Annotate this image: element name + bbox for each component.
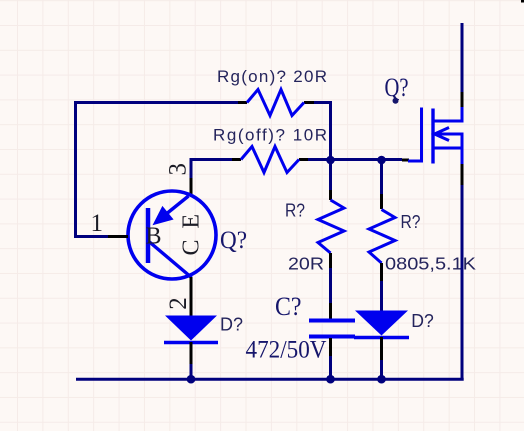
wire: pin3 vertical from transistor	[190, 158, 193, 178]
svg-text:B: B	[146, 224, 162, 250]
svg-text:20R: 20R	[288, 254, 324, 274]
svg-text:Rg(off)? 10R: Rg(off)? 10R	[213, 126, 327, 145]
wire: top horizontal to Rg(on)	[74, 101, 238, 104]
svg-text:D?: D?	[411, 311, 434, 331]
MOSFET right bar source/body	[461, 133, 464, 165]
MOSFET drain riser	[461, 107, 464, 123]
node junction rail (191,378)	[187, 375, 196, 384]
MOSFET channel bar	[431, 109, 434, 164]
svg-text:C: C	[179, 239, 205, 255]
transistor collector diagonal	[150, 242, 192, 278]
transistor emitter arrowhead	[153, 206, 174, 225]
node junction (330,160)	[326, 156, 335, 165]
resistor R3 zigzag vertical	[369, 210, 395, 264]
transistor Q1 circle	[128, 191, 216, 279]
MOSFET drain stub	[433, 120, 462, 123]
pin 1 stub black	[108, 235, 128, 238]
Q tail dot	[393, 98, 399, 104]
resistor Rg(on) R1 pins	[238, 101, 247, 104]
wire: base horizontal	[74, 235, 108, 238]
pin 3 stub black	[190, 178, 193, 196]
svg-text:C?: C?	[275, 292, 302, 321]
node junction (381,160)	[377, 156, 386, 165]
resistor Rg(off) pins	[232, 158, 241, 161]
wire: main rail y160 to MOSFET gate	[331, 158, 403, 161]
capacitor C1 bottom lead	[329, 338, 332, 356]
diode D2 triangle	[355, 311, 408, 336]
resistor R3 (0805,5.1K) top lead	[380, 160, 383, 194]
pin 2 stub black (collector down)	[190, 277, 193, 316]
resistor R2 bottom lead	[329, 253, 332, 268]
wire: source pin down	[461, 164, 464, 185]
wire: drain up	[461, 92, 464, 107]
svg-text:Q?: Q?	[220, 227, 247, 254]
MOSFET Q2 gate bar	[408, 108, 422, 162]
svg-text:Rg(on)? 20R: Rg(on)? 20R	[217, 67, 327, 86]
MOSFET source stub	[433, 147, 462, 150]
resistor R2 (20R) top lead	[329, 160, 332, 190]
MOSFET body stub	[433, 133, 462, 136]
wire: Rg(off) left horizontal	[190, 158, 233, 161]
svg-text:R?: R?	[285, 201, 305, 221]
svg-text:E: E	[179, 214, 205, 229]
diode D1 triangle	[165, 316, 217, 341]
resistor R2 zigzag vertical	[318, 200, 344, 253]
MOSFET body arrow	[435, 128, 450, 141]
wire: top-left vertical	[74, 101, 77, 238]
capacitor C1 plates	[309, 319, 355, 323]
wire: Rg(off) output to junction	[308, 158, 332, 161]
svg-text:D?: D?	[220, 315, 243, 335]
diode D2 cathode bar	[354, 336, 409, 340]
wire: Rg(on) output corner down	[314, 103, 331, 161]
resistor Rg(off) zigzag	[241, 147, 299, 173]
svg-text:2: 2	[165, 297, 192, 310]
svg-text:Q?: Q?	[385, 73, 409, 102]
wire: diode D1 bottom lead	[190, 342, 193, 364]
svg-text:R?: R?	[401, 212, 421, 232]
node junction rail (330,378)	[326, 375, 335, 384]
resistor Rg(on) zigzag	[247, 90, 304, 116]
svg-text:1: 1	[91, 210, 104, 237]
transistor base bar	[146, 208, 151, 263]
node junction rail (381,378)	[377, 375, 386, 384]
transistor emitter diagonal	[160, 196, 189, 219]
diode D2 bottom lead	[380, 337, 383, 360]
diode D1 cathode bar	[164, 341, 218, 345]
svg-text:472/50V: 472/50V	[246, 337, 327, 364]
corner mark top right	[521, 0, 524, 3]
svg-text:3: 3	[165, 163, 192, 176]
wire: bottom rail	[76, 378, 464, 381]
resistor R3 bottom lead	[380, 263, 383, 281]
